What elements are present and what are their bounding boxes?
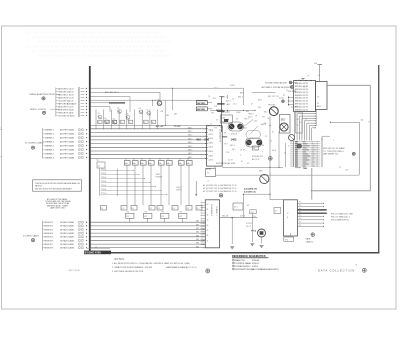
transistor Q2 bbox=[104, 118, 108, 124]
svg-text:4T2: 4T2 bbox=[144, 216, 147, 218]
wire sensor bus line 1 bbox=[91, 221, 206, 223]
wire sensor bus line 8 bbox=[91, 247, 206, 249]
svg-text:LA3 4: LA3 4 bbox=[209, 141, 214, 144]
svg-text:CABLE 4: CABLE 4 bbox=[306, 240, 314, 243]
note text block bbox=[45, 198, 71, 209]
svg-text:B.O +5V: B.O +5V bbox=[156, 126, 164, 128]
svg-text:R40 2: R40 2 bbox=[226, 101, 231, 103]
wire matrix rows bbox=[101, 169, 168, 195]
svg-text:MC 4: MC 4 bbox=[272, 150, 276, 152]
svg-text:SR0 410 C4 T1: SR0 410 C4 T1 bbox=[295, 83, 308, 85]
tick left edge a bbox=[0, 127, 2, 129]
svg-text:XX 4T: XX 4T bbox=[246, 226, 251, 228]
svg-text:C2: C2 bbox=[154, 100, 156, 102]
svg-text:SENSOR 5: SENSOR 5 bbox=[44, 237, 53, 239]
label bc rows bbox=[246, 223, 252, 228]
svg-text:P1: P1 bbox=[299, 202, 301, 204]
wire rail y218 bbox=[220, 217, 258, 218]
wire channel row 8 bbox=[43, 156, 88, 159]
svg-text:DB7 1: DB7 1 bbox=[188, 153, 193, 155]
svg-text:DB5 1: DB5 1 bbox=[188, 146, 193, 148]
wire drop Qb bbox=[278, 132, 280, 168]
transistor Q6 bbox=[139, 108, 143, 114]
svg-text:TP4: TP4 bbox=[285, 239, 288, 241]
label rail y218 bbox=[222, 216, 246, 218]
label sensor bus pin 8 bbox=[196, 246, 204, 248]
svg-text:A10: A10 bbox=[72, 114, 75, 117]
svg-text:4CL: 4CL bbox=[213, 98, 216, 100]
svg-text:I/O (REV) CABLE: I/O (REV) CABLE bbox=[23, 235, 39, 238]
ic U2 latch bbox=[316, 82, 328, 110]
svg-text:P6: P6 bbox=[299, 218, 301, 220]
svg-text:PT5 40: PT5 40 bbox=[101, 185, 106, 187]
wire stub above title bbox=[87, 247, 110, 249]
transistor Q9 bbox=[154, 100, 162, 106]
wire u1 feed row 1 bbox=[279, 97, 294, 100]
svg-text:PT7 40: PT7 40 bbox=[101, 193, 106, 195]
svg-text:PAGE 21: PAGE 21 bbox=[35, 184, 42, 187]
wire U2 to right loop bbox=[313, 85, 371, 191]
svg-text:LA7 4: LA7 4 bbox=[209, 159, 214, 162]
svg-text:A6: A6 bbox=[72, 102, 74, 105]
svg-text:ADV/RET DATA 5: ADV/RET DATA 5 bbox=[60, 144, 74, 147]
box TP bank A bbox=[280, 115, 291, 134]
node ref beside grid bbox=[352, 152, 355, 155]
wire u1 feed row 3 bbox=[288, 104, 297, 109]
label bus line 1 pin bbox=[188, 127, 206, 129]
svg-text:C 4: C 4 bbox=[210, 131, 213, 133]
svg-text:2T: 2T bbox=[297, 125, 299, 127]
svg-text:4T2: 4T2 bbox=[126, 216, 129, 218]
label sensor bus pin 6 bbox=[196, 239, 204, 241]
svg-text:45: 45 bbox=[207, 230, 209, 232]
wire sensor bus line 4 bbox=[91, 232, 206, 234]
label bus line 4 pin bbox=[188, 138, 206, 140]
wire data bus line 5 bbox=[91, 143, 208, 145]
wire fan 5 bbox=[304, 120, 316, 140]
svg-text:4T: 4T bbox=[251, 104, 253, 106]
svg-text:40: 40 bbox=[207, 204, 209, 206]
wire driver column 3 bbox=[110, 110, 112, 130]
box below c4 bbox=[284, 237, 294, 241]
svg-text:SR8 410 C4 T1: SR8 410 C4 T1 bbox=[295, 106, 308, 108]
svg-text:A9: A9 bbox=[72, 111, 74, 114]
power +5V top bbox=[314, 63, 323, 82]
svg-text:MTR DRV 8 C4: MTR DRV 8 C4 bbox=[58, 109, 71, 111]
svg-text:4T: 4T bbox=[283, 95, 285, 97]
label note 1 bbox=[112, 262, 162, 265]
svg-text:SRV DRV 2 A1: SRV DRV 2 A1 bbox=[58, 90, 71, 93]
svg-text:A2: A2 bbox=[72, 90, 74, 93]
node data collection symbol bbox=[362, 268, 366, 272]
svg-text:K8: K8 bbox=[187, 159, 189, 161]
label automatic strobe seq bbox=[262, 86, 292, 89]
svg-text:P8: P8 bbox=[299, 225, 301, 227]
svg-text:PT6 40: PT6 40 bbox=[101, 189, 106, 191]
svg-text:(LOCATED 4 P): (LOCATED 4 P) bbox=[244, 188, 257, 191]
transistor Q1 bbox=[98, 113, 102, 119]
wire y175 long bbox=[216, 174, 359, 176]
svg-text:MC 4T: MC 4T bbox=[222, 112, 227, 114]
wire driver column 4 bbox=[118, 110, 120, 130]
svg-text:NPNPNPNPNPNPNPNPNPNPNPNPNPNPNP: NPNPNPNPNPNPNPNPNPNPNPNPNPNPNPNPNPNPNP bbox=[26, 45, 161, 49]
label under K1 bbox=[231, 133, 237, 135]
svg-text:CLK DRV 5 A2: CLK DRV 5 A2 bbox=[58, 99, 70, 102]
svg-text:STROBE TIMING ADJUST: STROBE TIMING ADJUST bbox=[265, 81, 288, 84]
svg-text:DET/ADV DATA 4: DET/ADV DATA 4 bbox=[60, 232, 74, 235]
transistor Q12 bbox=[280, 123, 288, 131]
label sensor bus pin 7 bbox=[196, 243, 204, 245]
svg-text:P5: P5 bbox=[299, 215, 301, 217]
label revision bbox=[69, 269, 80, 272]
node automatic seq ref bbox=[290, 86, 306, 89]
label note 4b bbox=[166, 266, 197, 269]
label note 2 bbox=[112, 266, 153, 269]
wire q9 column bbox=[160, 100, 169, 125]
svg-text:DET/ADV DATA 6: DET/ADV DATA 6 bbox=[60, 239, 74, 242]
svg-text:ADV/RET DATA 6: ADV/RET DATA 6 bbox=[60, 148, 74, 151]
svg-text:4708-04: 4708-04 bbox=[252, 260, 260, 262]
svg-text:REV 4 05.A: REV 4 05.A bbox=[69, 269, 80, 272]
node ref under rows bbox=[219, 194, 222, 197]
label C31 bbox=[253, 216, 256, 218]
label DATA CABLE bbox=[306, 238, 314, 244]
wire c4 bottom stub bbox=[290, 233, 292, 236]
svg-text:SR6 410 C4 T1: SR6 410 C4 T1 bbox=[295, 101, 308, 103]
wire horiz y167 bbox=[222, 166, 283, 168]
label pin note dark bbox=[244, 188, 257, 194]
svg-text:C31: C31 bbox=[251, 212, 254, 214]
svg-text:4C2: 4C2 bbox=[220, 127, 223, 129]
wire sensor row 3 bbox=[43, 228, 88, 231]
svg-text:SET: SET bbox=[222, 122, 225, 124]
svg-text:DB0 1: DB0 1 bbox=[188, 127, 193, 129]
svg-text:ADV DRV 4 C1: ADV DRV 4 C1 bbox=[58, 96, 71, 99]
wire channel row 5 bbox=[43, 144, 88, 147]
wire C4 pin 4 bbox=[297, 212, 327, 215]
svg-text:K1: K1 bbox=[125, 159, 127, 161]
svg-text:ADV/RET DATA 7: ADV/RET DATA 7 bbox=[60, 152, 74, 155]
ground q41 bbox=[260, 245, 264, 247]
svg-text:TP5 2: TP5 2 bbox=[244, 119, 249, 121]
svg-text:1K: 1K bbox=[98, 122, 100, 124]
svg-text:C4: C4 bbox=[187, 208, 189, 210]
node data cable ref bbox=[311, 233, 315, 237]
wire fan 6 bbox=[307, 122, 316, 140]
wire channel row 6 bbox=[43, 148, 88, 151]
svg-text:ADV DRV 1 C4: ADV DRV 1 C4 bbox=[58, 87, 71, 90]
svg-text:DET/ADV DATA 1: DET/ADV DATA 1 bbox=[60, 221, 74, 224]
svg-text:4T2: 4T2 bbox=[161, 216, 164, 218]
svg-text:CHANNEL 4: CHANNEL 4 bbox=[44, 140, 54, 143]
svg-text:SB5: SB5 bbox=[196, 239, 199, 241]
svg-text:F40: F40 bbox=[205, 138, 210, 142]
power +5V decode rail bbox=[219, 97, 223, 133]
resistor R1 bbox=[98, 120, 103, 124]
svg-text:Q1: Q1 bbox=[98, 113, 100, 115]
label rail right bbox=[174, 126, 181, 128]
wire right trunk bus bbox=[378, 65, 380, 253]
resistor R2 bbox=[105, 120, 110, 124]
svg-text:C31: C31 bbox=[253, 216, 256, 218]
wire bracket mid-left group bbox=[42, 128, 44, 158]
wire relay bank columns bbox=[127, 165, 189, 205]
wire channel row 2 bbox=[43, 133, 88, 136]
wire fan 2 bbox=[297, 113, 316, 140]
svg-text:TP41 2: TP41 2 bbox=[248, 114, 254, 116]
wire driver column 1 bbox=[95, 110, 97, 130]
wire sensor bus line 3 bbox=[91, 229, 206, 231]
svg-text:NPNPNPNPNPNPNPNPNPNPNPNPNPNPNP: NPNPNPNPNPNPNPNPNPNPNPNPNPNPNPNPNPNPNP bbox=[32, 36, 167, 40]
svg-text:CHANNEL 8: CHANNEL 8 bbox=[44, 156, 54, 159]
svg-text:ADV/RET DATA 4: ADV/RET DATA 4 bbox=[60, 140, 74, 143]
label ic U3 bottom bbox=[206, 169, 212, 171]
svg-text:1K: 1K bbox=[144, 122, 146, 124]
svg-text:1. ALL RESISTORS 1/4W 5% - 4 O: 1. ALL RESISTORS 1/4W 5% - 4 OHM VALUES … bbox=[112, 262, 162, 265]
svg-text:DET/ADV DATA 2: DET/ADV DATA 2 bbox=[60, 225, 74, 228]
svg-text:SET 4: SET 4 bbox=[230, 145, 235, 147]
svg-text:SR7 410 C4 T1: SR7 410 C4 T1 bbox=[295, 104, 308, 106]
svg-text:C4: C4 bbox=[132, 208, 134, 210]
box matrix left header bbox=[96, 160, 105, 168]
svg-text:R4 2: R4 2 bbox=[264, 112, 268, 114]
svg-text:4 SET: 4 SET bbox=[230, 85, 235, 87]
label mid pair bbox=[252, 156, 264, 161]
svg-text:PT1 40: PT1 40 bbox=[101, 169, 106, 171]
ic U4 i/o board bbox=[201, 200, 220, 248]
svg-text:4T 2C: 4T 2C bbox=[246, 139, 251, 141]
svg-text:K4: K4 bbox=[149, 159, 151, 161]
svg-text:4: 4 bbox=[240, 155, 241, 157]
svg-text:Q6: Q6 bbox=[139, 108, 141, 110]
label MC4 bbox=[243, 128, 247, 130]
svg-text:C4: C4 bbox=[173, 208, 175, 210]
svg-text:TP2: TP2 bbox=[211, 113, 214, 115]
svg-text:SENSOR 6: SENSOR 6 bbox=[44, 240, 53, 242]
capacitor C22 bbox=[217, 110, 231, 113]
svg-text:PT2 40: PT2 40 bbox=[101, 173, 106, 175]
svg-text:MCL 3: MCL 3 bbox=[238, 96, 243, 98]
svg-text:SENSOR 8: SENSOR 8 bbox=[44, 248, 53, 250]
wire driver column 5 bbox=[126, 110, 128, 130]
wire q41 down bbox=[261, 237, 263, 244]
svg-text:(2) PIN10 XXX: (2) PIN10 XXX bbox=[206, 185, 218, 187]
wire input row 6 to trunk bbox=[56, 102, 87, 105]
resistor R7 bbox=[151, 120, 156, 124]
label branch r bbox=[174, 114, 177, 116]
svg-text:CHANNEL 3: CHANNEL 3 bbox=[44, 137, 54, 140]
wire sensor row 6 bbox=[43, 239, 88, 242]
wire input row 3 to trunk bbox=[56, 93, 87, 96]
wire matrix left rail bbox=[100, 169, 118, 197]
resistor R3 bbox=[112, 120, 117, 124]
wire stub column x288 bbox=[288, 96, 290, 106]
svg-text:4T1: 4T1 bbox=[262, 117, 265, 119]
svg-text:46: 46 bbox=[207, 235, 209, 237]
resistor R41 bbox=[250, 210, 256, 214]
wire C4 pin 8 bbox=[297, 225, 324, 227]
svg-text:WH2: WH2 bbox=[223, 137, 229, 139]
svg-text:CHANNEL 6: CHANNEL 6 bbox=[44, 148, 54, 151]
label sensor bus pin 1 bbox=[196, 221, 204, 223]
relay K1 bbox=[228, 122, 244, 131]
label F40 bold bbox=[197, 138, 210, 142]
wire sensor row 2 bbox=[43, 225, 88, 228]
svg-text:NPNPNPNPNPNPNPNPNPNPNPNPNPNPNP: NPNPNPNPNPNPNPNPNPNPNPNPNPNPNPNPNPNPNP bbox=[26, 31, 161, 35]
resistor R5 bbox=[128, 120, 133, 124]
driver bank bottom boxes row1 bbox=[101, 206, 203, 211]
driver bank bottom boxes row2 bbox=[126, 212, 187, 223]
svg-text:A7: A7 bbox=[72, 105, 74, 108]
wire input row 10 to trunk bbox=[56, 114, 87, 117]
power tee U1 bbox=[301, 79, 304, 81]
svg-text:L4CT: L4CT bbox=[317, 106, 321, 108]
svg-text:TP4: TP4 bbox=[144, 212, 147, 214]
svg-text:4T: 4T bbox=[275, 211, 277, 213]
svg-text:2: 2 bbox=[333, 140, 334, 142]
svg-text:SR1 410 C4 T1: SR1 410 C4 T1 bbox=[295, 86, 308, 88]
wire sensor row 8 bbox=[43, 247, 88, 250]
wire horiz y110 bbox=[210, 109, 255, 111]
wire input row 9 to trunk bbox=[56, 111, 87, 114]
svg-text:SEE SECTION 4 FOR MOUNTING ASS: SEE SECTION 4 FOR MOUNTING ASSEMBLY bbox=[35, 187, 73, 190]
label bus line 9 pin bbox=[188, 157, 206, 159]
wire fan 7 bbox=[309, 125, 316, 141]
svg-text:N4: N4 bbox=[224, 133, 226, 135]
svg-text:AUTOMATIC STROBE SEQUENCE: AUTOMATIC STROBE SEQUENCE bbox=[262, 86, 292, 89]
svg-text:K7: K7 bbox=[179, 159, 181, 161]
svg-text:SB7: SB7 bbox=[196, 246, 199, 248]
svg-text:SB2: SB2 bbox=[196, 228, 199, 230]
label reference row 1 bbox=[233, 259, 261, 262]
svg-text:DET/ADV DATA 7: DET/ADV DATA 7 bbox=[60, 243, 74, 246]
wire data bus line 9 bbox=[91, 157, 208, 159]
wire nested branch 6 bbox=[91, 107, 110, 112]
svg-text:PT4 40: PT4 40 bbox=[101, 181, 106, 183]
transistor Q13 bbox=[289, 135, 295, 141]
svg-text:SENSOR 1: SENSOR 1 bbox=[44, 222, 53, 224]
wire a-time-out bbox=[240, 92, 276, 94]
svg-text:TP 2: TP 2 bbox=[224, 144, 228, 146]
ic decode A bbox=[196, 101, 212, 105]
wire C4 pin 1 bbox=[297, 202, 324, 204]
svg-text:47: 47 bbox=[207, 240, 209, 242]
svg-text:4 TPS 2: 4 TPS 2 bbox=[246, 223, 252, 225]
transistor Q14 in grid bbox=[297, 144, 301, 148]
label scattered reference designators bbox=[208, 75, 349, 172]
relay bank top boxes bbox=[125, 159, 193, 165]
ic decode B bbox=[196, 107, 212, 111]
svg-text:NPNPNPNPNPNPNPNPNPNPNPNPNPNPNP: NPNPNPNPNPNPNPNPNPNPNPNPNPNPNPNPNPNPNP bbox=[38, 54, 173, 58]
svg-text:SB6: SB6 bbox=[196, 243, 199, 245]
label note beside grid bbox=[323, 147, 345, 155]
svg-text:SR5 410 C4 T1: SR5 410 C4 T1 bbox=[295, 98, 308, 100]
svg-text:2T4: 2T4 bbox=[214, 106, 217, 108]
label reference row 4 bbox=[233, 268, 279, 271]
svg-text:4R7: 4R7 bbox=[174, 114, 177, 116]
svg-text:DB6 1: DB6 1 bbox=[188, 150, 193, 152]
wire elbow to connector bbox=[270, 199, 284, 201]
wire loop into connector bbox=[311, 168, 313, 200]
label bus line 5 pin bbox=[188, 142, 206, 144]
ground x232 bbox=[230, 247, 234, 249]
wire C4 pin 6 bbox=[297, 218, 324, 220]
wire input row 7 to trunk bbox=[56, 105, 87, 108]
svg-text:SB3: SB3 bbox=[196, 232, 199, 234]
wire sensor row 7 bbox=[43, 243, 88, 246]
label test points block bbox=[156, 174, 163, 179]
wire data bus line 8 bbox=[91, 154, 208, 156]
svg-text:SB0: SB0 bbox=[196, 221, 199, 223]
svg-text:A5: A5 bbox=[72, 99, 74, 102]
svg-text:1K: 1K bbox=[105, 122, 107, 124]
svg-text:POWER SUPPLY: POWER SUPPLY bbox=[235, 266, 251, 268]
label SERVO CONTROL bbox=[30, 109, 60, 111]
svg-text:1K: 1K bbox=[152, 122, 154, 124]
wire drop x252 bbox=[251, 214, 253, 242]
svg-text:C4: C4 bbox=[150, 208, 152, 210]
svg-text:C4: C4 bbox=[122, 208, 124, 210]
node reference symbol servo control bbox=[42, 111, 45, 114]
svg-text:PIN 2 TO DATA COLL 2: PIN 2 TO DATA COLL 2 bbox=[331, 216, 350, 219]
relay K2 bbox=[244, 120, 261, 139]
label note 3 bbox=[112, 271, 144, 273]
svg-text:P3: P3 bbox=[299, 208, 301, 210]
svg-text:SR9 410 C4 T1: SR9 410 C4 T1 bbox=[295, 109, 308, 111]
label BELL SEL branch bbox=[105, 92, 119, 94]
svg-text:BELL SEL 1 42: BELL SEL 1 42 bbox=[58, 94, 71, 96]
wire sensor row 1 bbox=[43, 221, 88, 224]
label bus line 3 pin bbox=[188, 135, 206, 137]
node reference symbol i/o channels bbox=[31, 146, 34, 149]
svg-text:MC4: MC4 bbox=[243, 128, 247, 130]
svg-text:2. CAPACITORS IN MICROFARADS -: 2. CAPACITORS IN MICROFARADS - 50V MIN bbox=[112, 266, 153, 269]
label note 4 bbox=[162, 262, 190, 265]
svg-text:LA2 4: LA2 4 bbox=[209, 137, 214, 140]
wire channel row 4 bbox=[43, 140, 88, 143]
svg-text:4T: 4T bbox=[272, 132, 274, 134]
label strobe delay bbox=[216, 162, 236, 165]
svg-text:TIMING ADAPTERS FROM: TIMING ADAPTERS FROM bbox=[29, 93, 55, 96]
svg-text:(SEE SHEET 2 4): (SEE SHEET 2 4) bbox=[323, 154, 338, 156]
wire sensor row 5 bbox=[43, 236, 88, 239]
label reference row 3 bbox=[233, 265, 259, 268]
svg-text:K1: K1 bbox=[236, 119, 238, 121]
svg-text:TP4: TP4 bbox=[179, 212, 182, 214]
svg-text:WH: WH bbox=[197, 139, 201, 142]
wire arrow down left bbox=[195, 181, 197, 196]
svg-text:DATA COLLECTION: DATA COLLECTION bbox=[318, 269, 355, 273]
wire driver column 2 bbox=[103, 110, 105, 130]
svg-text:1402: 1402 bbox=[231, 138, 237, 142]
svg-text:PT 41: PT 41 bbox=[232, 188, 237, 190]
capacitor C21 bbox=[217, 103, 231, 106]
label 1402 bold bbox=[223, 137, 237, 142]
svg-text:4708-2: 4708-2 bbox=[252, 266, 258, 268]
label bus line 7 pin bbox=[188, 150, 206, 152]
wire bracket bottom-left group bbox=[42, 221, 44, 251]
svg-text:DB2 1: DB2 1 bbox=[188, 135, 193, 137]
svg-text:R41: R41 bbox=[246, 111, 249, 113]
svg-text:41: 41 bbox=[207, 209, 209, 211]
wire C4 pin 3 bbox=[297, 208, 327, 211]
svg-text:DET/ADV DATA 3: DET/ADV DATA 3 bbox=[60, 228, 74, 231]
svg-text:SERVO CONT B: SERVO CONT B bbox=[30, 109, 46, 111]
label TP9 dark bbox=[251, 230, 257, 233]
svg-text:DB3 1: DB3 1 bbox=[188, 138, 193, 140]
svg-text:R4: R4 bbox=[262, 145, 264, 147]
resistor R6 bbox=[144, 120, 149, 124]
